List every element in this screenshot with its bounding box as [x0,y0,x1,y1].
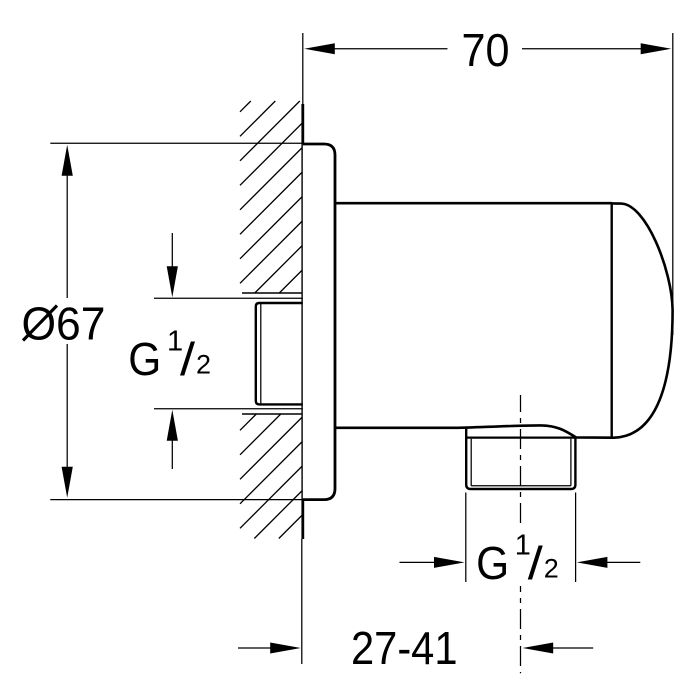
outlet centerline [520,395,522,527]
dim O67 arrow bottom [62,467,73,498]
cap boundary line [611,203,613,438]
dim 70 extension line right [672,33,674,335]
svg-text:G: G [128,333,161,385]
inlet thread arrow top [171,233,173,267]
inlet G 1/2 label [128,326,211,386]
inlet thread extension line bottom [154,408,303,410]
outlet nut [466,429,575,490]
inlet thread extension line top [154,297,303,299]
outlet nut inner facet left [470,439,472,486]
body bottom edge [335,425,613,437]
outlet G 1/2 label [476,529,559,589]
outlet nut inner facet right [570,439,572,486]
wall hatch cutout edge top [242,292,303,294]
dim O67 line lower segment [66,344,68,468]
svg-text:/: / [528,537,543,589]
dim O67 extension line top [50,142,303,144]
svg-text:27-41: 27-41 [351,622,458,674]
body top edge [335,202,612,205]
flange [303,144,335,500]
dim O67 arrow top [62,145,73,176]
dim 27-41 line left [238,647,272,649]
dim 70 arrow left [304,43,335,54]
wall hatching upper [240,101,303,293]
svg-text:G: G [476,537,509,589]
dim 70 line left segment [334,48,448,50]
svg-text:2: 2 [544,553,559,583]
outlet centerline lower [520,586,522,673]
inlet socket G1/2 [256,303,303,404]
outlet nut top shoulder [466,437,575,439]
wall extension line below [301,539,303,664]
dim O67 extension line bottom [50,499,303,501]
outlet nut inner bottom line [471,485,571,487]
outlet thread extension line left [465,493,467,583]
dim O67 line upper segment [66,176,68,299]
wall extension line above [302,33,304,104]
dim 27-41 line right [553,647,593,649]
svg-text:/: / [180,333,195,385]
outlet thread dim line left [400,561,435,563]
dim O67 diameter slash [23,306,57,341]
wall hatch cutout edge bottom [242,413,303,415]
svg-text:2: 2 [196,350,211,380]
inlet thread arrow bottom [171,440,173,469]
svg-text:O67: O67 [22,297,106,349]
dim 70 arrow right [641,43,672,54]
wall line [301,104,304,539]
svg-text:70: 70 [462,24,510,76]
dim 70 line right segment [522,48,642,50]
wall hatching lower [240,414,303,539]
outlet thread extension line right [575,493,577,583]
end cap outline [612,203,673,437]
inlet socket inner thread line [260,304,262,405]
outlet thread dim line right [607,561,640,563]
